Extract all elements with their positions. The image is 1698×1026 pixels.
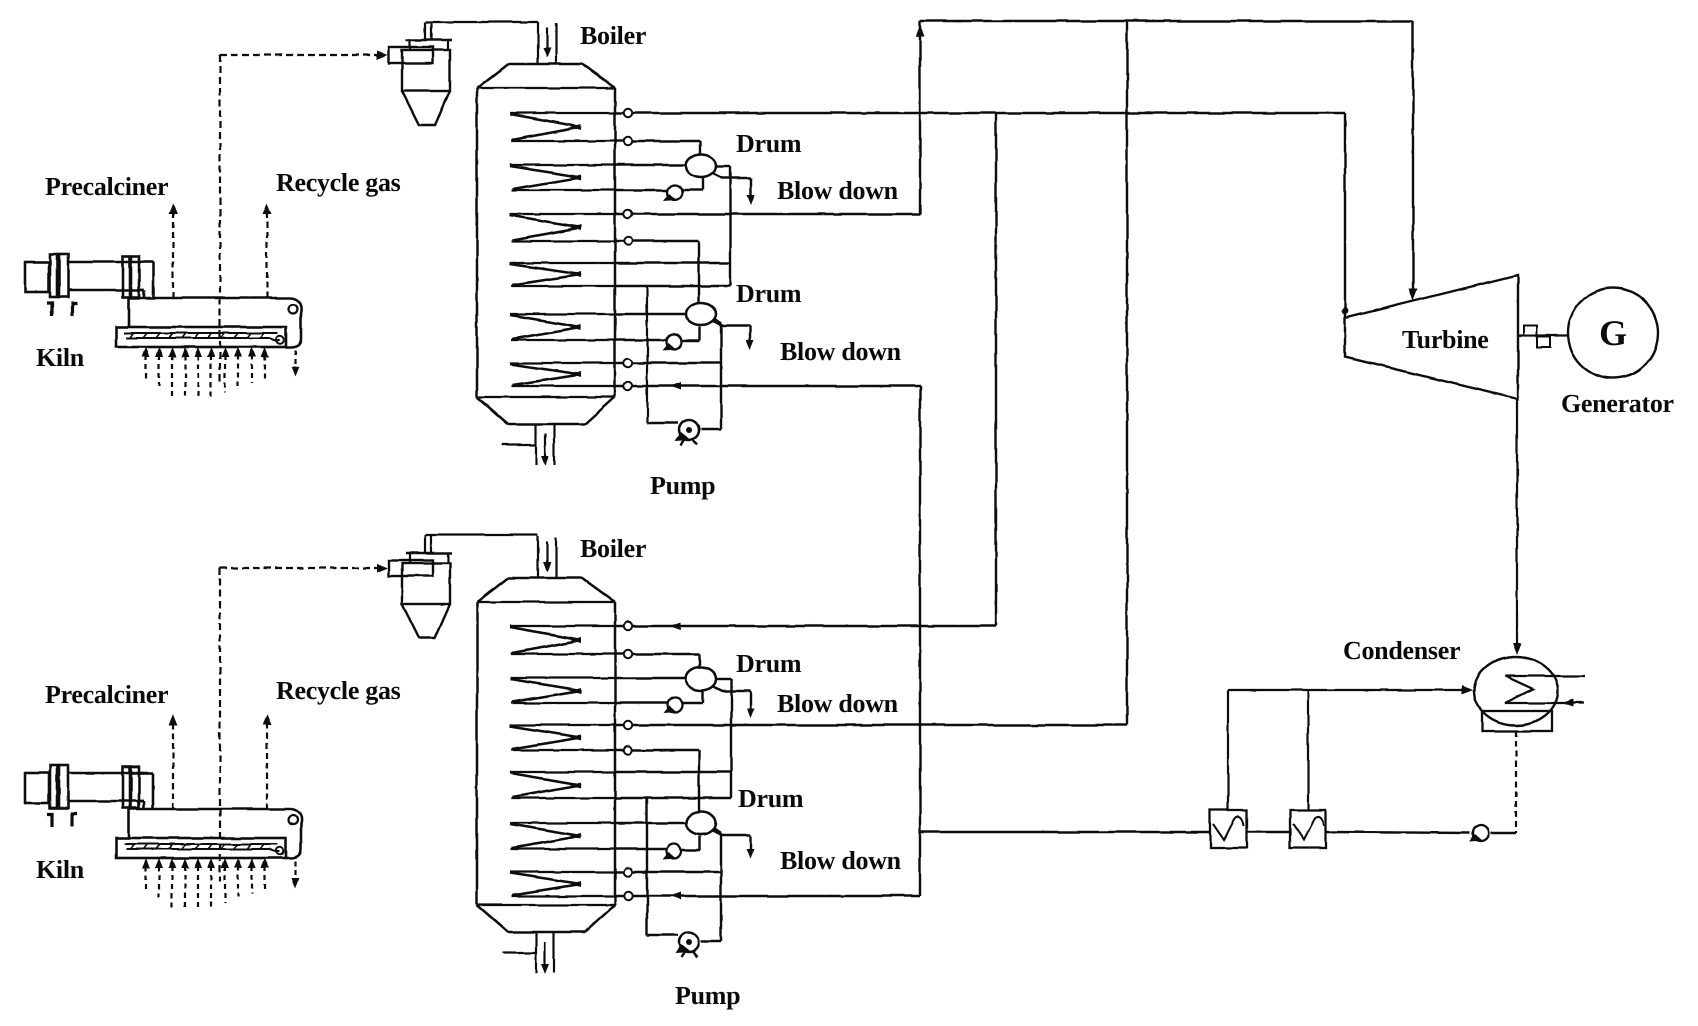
svg-text:Turbine: Turbine bbox=[1402, 325, 1489, 354]
svg-text:Drum: Drum bbox=[738, 784, 804, 813]
svg-text:Blow down: Blow down bbox=[780, 846, 902, 875]
svg-text:Drum: Drum bbox=[736, 649, 802, 678]
svg-text:Boiler: Boiler bbox=[580, 21, 646, 50]
svg-text:Blow down: Blow down bbox=[780, 337, 902, 366]
svg-text:Recycle gas: Recycle gas bbox=[276, 676, 401, 705]
svg-text:Drum: Drum bbox=[736, 279, 802, 308]
svg-text:Kiln: Kiln bbox=[36, 343, 85, 372]
svg-text:Pump: Pump bbox=[650, 471, 715, 500]
svg-text:Pump: Pump bbox=[675, 981, 740, 1010]
svg-text:Precalciner: Precalciner bbox=[45, 680, 168, 709]
svg-text:Recycle gas: Recycle gas bbox=[276, 168, 401, 197]
svg-text:Blow down: Blow down bbox=[777, 176, 899, 205]
svg-text:Generator: Generator bbox=[1561, 389, 1674, 418]
svg-text:Kiln: Kiln bbox=[36, 855, 85, 884]
svg-text:Precalciner: Precalciner bbox=[45, 172, 168, 201]
svg-text:Condenser: Condenser bbox=[1343, 636, 1460, 665]
svg-text:G: G bbox=[1599, 313, 1627, 353]
svg-text:Drum: Drum bbox=[736, 129, 802, 158]
svg-text:Blow down: Blow down bbox=[777, 689, 899, 718]
svg-text:Boiler: Boiler bbox=[580, 534, 646, 563]
